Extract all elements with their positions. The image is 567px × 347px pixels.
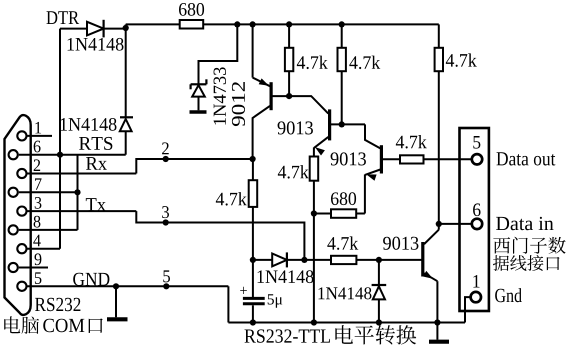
- junction dot TTL5: [163, 283, 169, 289]
- wire bottom rail: [228, 322, 465, 324]
- label 1N4733 (rotated): [214, 67, 226, 124]
- resistor 4.7k R8 (Q4 base): [331, 256, 356, 264]
- transistor Q2 base wire right: [331, 123, 365, 125]
- junction dot rail-9012emitter: [250, 21, 256, 27]
- wire zener branch: [199, 24, 238, 84]
- label Rx: [86, 157, 98, 170]
- label GND: [73, 273, 84, 286]
- wire DTR horizontal: [60, 28, 87, 30]
- label 1N4148 D2: [61, 118, 67, 131]
- label 电脑 COM 口 (computer COM port): [4, 316, 20, 333]
- label 1N4148 D3: [258, 270, 264, 283]
- junction dot TTL3: [163, 219, 169, 225]
- label 5 (TTL pin5): [163, 270, 170, 282]
- DB9 pin 5: [17, 282, 26, 291]
- label RS232: [35, 298, 46, 311]
- label 4.7k R6: [396, 136, 404, 149]
- label 4.7k R8: [327, 237, 335, 250]
- junction dot DTR-rail: [123, 25, 129, 31]
- junction dot TTL2: [163, 156, 169, 162]
- transistor Q2 9013 collector wire: [289, 96, 328, 114]
- label 4.7k R9: [446, 54, 454, 67]
- label 2 (TTL pin2): [162, 142, 169, 154]
- transistor Q4 bar: [421, 242, 424, 277]
- transistor Q4 collector: [438, 71, 440, 230]
- transistor Q1 9012 collector: [253, 106, 270, 159]
- diode D2 1N4148 (RTS clamp): [120, 116, 133, 118]
- junction dot pin7-RTS: [74, 189, 80, 195]
- transistor Q1 9012 base wire: [273, 95, 290, 97]
- ground symbol left: [115, 286, 117, 317]
- transistor Q2 emitter: [314, 137, 328, 148]
- transistor Q3 bar: [380, 145, 383, 173]
- wire diode2 vertical from DTR junction: [125, 29, 127, 118]
- DB9 connector shell: [5, 115, 31, 315]
- resistor 680 R7: [314, 213, 331, 215]
- label Gnd: [495, 289, 505, 302]
- wire DTR vertical to pin4: [59, 29, 61, 249]
- DB9 pin 4: [17, 244, 26, 253]
- junction dot rail-680line: [311, 319, 317, 325]
- transistor Q3 base wire: [383, 158, 400, 160]
- wire top rail: [126, 23, 180, 25]
- label 1N4148 D4: [319, 287, 325, 299]
- label 680 R7: [331, 192, 339, 205]
- junction dot R8-D4-Q4base: [376, 257, 382, 263]
- wire Rx from pin2: [136, 159, 252, 174]
- junction dot Q1collector-R4: [250, 156, 256, 162]
- label DTR: [46, 11, 57, 24]
- junction dot rail-cap: [250, 319, 256, 325]
- junction dot rail-R3: [339, 21, 345, 27]
- resistor 4.7k R5 (Q2 emitter): [310, 157, 319, 181]
- resistor 4.7k R3: [341, 24, 343, 47]
- wire R5 junction down to rail: [313, 214, 315, 323]
- Siemens connector box: [460, 128, 489, 311]
- label 9013 Q4: [383, 237, 391, 250]
- label 西门子数据线接口 (Siemens data line port): [493, 237, 510, 253]
- label 4.7k R3: [349, 56, 357, 69]
- label RTS: [79, 137, 91, 150]
- DB9 pin 6: [9, 150, 18, 159]
- label Data out: [497, 152, 508, 165]
- DB9 pin 9: [9, 263, 18, 272]
- DB9 pin 1: [17, 131, 26, 140]
- junction dot GND-ground: [113, 283, 119, 289]
- ground bar (zener anode): [190, 110, 207, 114]
- DB9 pin 8: [9, 225, 18, 234]
- transistor Q4 emitter: [424, 273, 437, 281]
- connector pin 5 circle: [472, 154, 482, 164]
- wire RTS vertical pin6-pin7-pin8: [77, 155, 79, 230]
- junction dot D3-Tx-base: [301, 257, 307, 263]
- junction dot rail-Q4emitter: [434, 319, 440, 325]
- resistor 4.7k R6 (to Data out): [400, 155, 424, 163]
- junction dot rail-D4: [376, 319, 382, 325]
- junction dot DataIn-Q4collector: [436, 221, 442, 227]
- resistor 680 R1: [180, 20, 204, 29]
- resistor 4.7k R4 (Rx pulldown): [252, 159, 254, 180]
- label 4.7k R4: [216, 193, 224, 206]
- transistor Q3 collector wire: [365, 124, 380, 148]
- wire GND from pin5: [227, 286, 229, 322]
- wire to Q4 base: [379, 259, 422, 261]
- wire Tx from pin3: [136, 211, 304, 260]
- wire diode2 anode to pin6 line: [125, 131, 127, 155]
- transistor Q3 emitter: [365, 170, 380, 175]
- resistor 4.7k R2: [288, 24, 290, 47]
- diode D4 1N4148 (base clamp): [378, 260, 380, 285]
- diode D3 1N4148 (Tx): [253, 259, 272, 261]
- junction dot rail-R2: [286, 21, 292, 27]
- wire pin6 to Q4 collector: [439, 223, 472, 225]
- junction dot Q2base-R3: [339, 121, 345, 127]
- junction dot R2-Q1base: [286, 93, 292, 99]
- wire D3 junction to R8: [304, 259, 331, 261]
- junction dot pin6-DTR: [57, 152, 63, 158]
- DB9 pin 2: [17, 169, 26, 178]
- transistor Q1 9012 bar: [270, 82, 273, 110]
- label Data in: [496, 217, 509, 230]
- label 9013 Q3: [331, 152, 339, 165]
- connector pin 1 circle: [471, 292, 481, 302]
- DB9 pin 7: [9, 188, 18, 197]
- junction dot rail-zener: [234, 21, 240, 27]
- junction dot R4-D3-cap: [250, 257, 256, 263]
- label 1N4148 D1: [68, 38, 74, 51]
- diode D1 1N4148 (DTR): [87, 22, 104, 36]
- transistor Q2 9013 bar: [328, 109, 331, 140]
- ground symbol right: [436, 323, 438, 340]
- junction dot R5-680: [311, 210, 317, 216]
- label 4.7k R5: [278, 166, 286, 179]
- label 9012 (rotated): [232, 82, 245, 126]
- label 3 (TTL pin3): [162, 206, 169, 218]
- label 4.7k R2: [297, 56, 305, 69]
- label Tx: [86, 198, 97, 211]
- connector pin 6 circle: [472, 219, 482, 229]
- capacitor C1 5u: [252, 260, 254, 297]
- DB9 pin 3: [17, 207, 26, 216]
- label RS232-TTL 电平转换 (level conversion): [245, 330, 256, 343]
- transistor Q1 9012 emitter: [252, 24, 254, 77]
- zener diode 1N4733: [191, 83, 207, 85]
- resistor 4.7k R9: [438, 24, 440, 47]
- label 9013 Q2: [278, 121, 286, 134]
